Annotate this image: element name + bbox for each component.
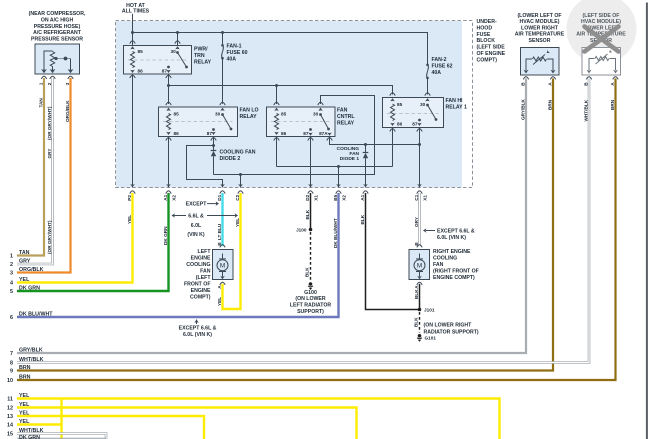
arrow into left fan B bbox=[220, 250, 225, 253]
connector below K4 pin 87 bbox=[417, 129, 422, 132]
svg-text:FUSE 60: FUSE 60 bbox=[227, 50, 248, 56]
watermark circle (deleted sensor) bbox=[567, 0, 637, 64]
arrow pin 86 K2 bbox=[166, 132, 171, 135]
svg-text:RELAY: RELAY bbox=[240, 114, 258, 120]
svg-text:40A: 40A bbox=[227, 57, 237, 63]
svg-text:GRY/BLK: GRY/BLK bbox=[19, 347, 43, 353]
svg-text:FUSE 62: FUSE 62 bbox=[432, 64, 453, 70]
connector at block border pin A1 x=168.5 bbox=[166, 184, 171, 194]
label row 13 YEL bbox=[7, 410, 30, 420]
svg-text:DK BLU/WHT: DK BLU/WHT bbox=[333, 218, 338, 248]
svg-text:87A: 87A bbox=[319, 131, 328, 136]
wire BRN sensor2 A bbox=[17, 79, 616, 381]
svg-text:87: 87 bbox=[412, 122, 418, 127]
label K4 FAN HI RELAY 1 bbox=[446, 98, 467, 111]
relay K2 internal dashed divider bbox=[163, 121, 233, 123]
node bus-30 junction bbox=[176, 31, 179, 34]
wire coil feed bus y86 bbox=[167, 84, 393, 95]
svg-text:HOOD: HOOD bbox=[477, 25, 493, 31]
wire BRN sensor1 A bbox=[17, 79, 553, 371]
label row 4 YEL bbox=[10, 277, 30, 287]
wire feed drop to FAN CNTRL 85 bbox=[276, 86, 278, 105]
wire row 16 DK GRN (clipped) bbox=[17, 437, 106, 439]
svg-text:6.0L: 6.0L bbox=[191, 223, 202, 229]
svg-text:EXCEPT 6.6L &: EXCEPT 6.6L & bbox=[437, 228, 475, 234]
svg-text:DK GRN: DK GRN bbox=[19, 435, 40, 439]
svg-text:(LEFT SIDE: (LEFT SIDE bbox=[477, 45, 506, 51]
coil of U1 bbox=[131, 52, 135, 68]
svg-text:LEFT: LEFT bbox=[198, 249, 212, 255]
coil of K2 bbox=[167, 114, 171, 130]
node bus-85 junction bbox=[131, 31, 134, 34]
svg-text:YEL: YEL bbox=[19, 277, 30, 283]
switch arm of K3 bbox=[319, 113, 330, 130]
svg-text:X1: X1 bbox=[313, 195, 318, 201]
relay K4 FAN HI RELAY 1 (box) bbox=[383, 98, 444, 128]
svg-text:13: 13 bbox=[7, 414, 13, 420]
connector below sensor1 pin B bbox=[523, 77, 528, 80]
wire BLK from D2/X1 to J100 bbox=[310, 193, 312, 230]
svg-text:RADIATOR SUPPORT): RADIATOR SUPPORT) bbox=[424, 329, 479, 335]
label row 5 DK GRN bbox=[10, 285, 40, 295]
ground G100 bbox=[309, 282, 313, 286]
connector below right fan A bbox=[417, 282, 422, 285]
wire B5 drop bbox=[338, 167, 340, 188]
pin 85 of K3 bbox=[274, 102, 279, 111]
label FAN-2 FUSE 62 40A bbox=[432, 57, 453, 76]
connector below K2 pin 87 bbox=[211, 138, 216, 141]
relay K2 FAN LO RELAY (box) bbox=[159, 107, 238, 137]
wire K3-87A run y144 bbox=[330, 137, 420, 145]
arrow pin 86 K4 bbox=[390, 123, 395, 126]
svg-text:10: 10 bbox=[7, 378, 13, 384]
svg-text:HVAC MODULE): HVAC MODULE) bbox=[520, 19, 560, 25]
arrow pin 87 K4 bbox=[417, 123, 422, 126]
label row 1 TAN bbox=[10, 250, 30, 260]
svg-text:FAN: FAN bbox=[433, 262, 444, 268]
svg-text:4: 4 bbox=[10, 281, 13, 287]
wire hot feed into block bbox=[132, 14, 134, 33]
pin 85 of K4 bbox=[390, 93, 395, 102]
label row 7 GRY/BLK bbox=[10, 347, 43, 357]
node bus-fuse1 junction bbox=[221, 31, 224, 34]
svg-text:HVAC MODULE): HVAC MODULE) bbox=[581, 19, 621, 25]
connector below K3 pin 87A bbox=[327, 138, 332, 141]
svg-text:86: 86 bbox=[174, 131, 180, 136]
wire K2-87 down to node bbox=[213, 137, 215, 146]
connector at block border pin B5 x=338.5 bbox=[336, 184, 341, 194]
svg-text:UNDER-: UNDER- bbox=[477, 19, 497, 25]
svg-text:BLK: BLK bbox=[414, 317, 419, 327]
contact dot pin 87 K2 bbox=[212, 128, 215, 131]
label row 8 WHT/BLK bbox=[10, 357, 44, 367]
coil of K4 bbox=[391, 104, 395, 121]
switch arm of U1 bbox=[176, 51, 188, 68]
arrow pin 87 U1 bbox=[166, 70, 171, 73]
wire U1-86 drop to P2 pin bbox=[132, 74, 134, 187]
connector at block border pin D1 x=222.5 bbox=[220, 184, 225, 194]
fuse FAN-2 FUSE 62 40A bbox=[426, 45, 429, 95]
label row 9 BRN bbox=[10, 365, 31, 375]
arrow pin 87A K3 bbox=[327, 132, 332, 135]
svg-text:(ON LOWER RIGHT: (ON LOWER RIGHT bbox=[424, 322, 473, 328]
svg-text:(LOWER LEFT OF: (LOWER LEFT OF bbox=[517, 13, 561, 19]
connector below sensor pin 3 bbox=[68, 76, 73, 79]
svg-text:YEL: YEL bbox=[127, 215, 132, 224]
svg-text:A1: A1 bbox=[360, 194, 365, 200]
label row 10 BRN bbox=[7, 374, 31, 384]
svg-text:(OR GRY/WHT): (OR GRY/WHT) bbox=[47, 106, 52, 140]
svg-text:OF ENGINE: OF ENGINE bbox=[477, 51, 506, 57]
svg-text:30: 30 bbox=[420, 102, 426, 107]
svg-text:YEL: YEL bbox=[235, 218, 240, 227]
svg-text:D1: D1 bbox=[217, 194, 222, 200]
svg-text:BLK: BLK bbox=[305, 209, 310, 219]
svg-text:85: 85 bbox=[281, 112, 287, 117]
coil of K3 bbox=[275, 114, 279, 130]
connector at block border pin A1 x=365.5 bbox=[363, 184, 368, 194]
svg-text:30: 30 bbox=[215, 112, 221, 117]
sensor A/C pressure (box) bbox=[35, 44, 80, 74]
label FAN-1 FUSE 60 40A bbox=[227, 44, 248, 63]
connector at block border pin D2 x=310.5 bbox=[308, 184, 313, 194]
label pin B5/X2 bbox=[333, 194, 346, 200]
svg-text:LT BLU: LT BLU bbox=[217, 223, 222, 240]
svg-text:GRY: GRY bbox=[414, 216, 419, 227]
wire YEL from C2 to left fan bbox=[223, 193, 241, 309]
svg-text:(LEFT SIDE OF: (LEFT SIDE OF bbox=[583, 13, 620, 19]
label pin D1 bbox=[217, 194, 222, 200]
wire D1 branch (left loop to LT BLU) bbox=[187, 146, 223, 188]
label LOWER LEFT AIR TEMPERATURE SENSOR bbox=[576, 13, 626, 44]
connector below K2 pin 86 bbox=[166, 138, 171, 141]
wire bus to U1 pin30 bbox=[177, 33, 179, 46]
svg-text:2: 2 bbox=[10, 262, 13, 268]
svg-text:RIGHT ENGINE: RIGHT ENGINE bbox=[433, 249, 471, 255]
svg-text:GRY: GRY bbox=[47, 148, 52, 159]
wire DK GRN from A1/X2 bbox=[17, 193, 169, 291]
svg-text:ENGINE: ENGINE bbox=[191, 288, 211, 294]
svg-text:BRN: BRN bbox=[547, 99, 552, 110]
svg-text:M: M bbox=[220, 263, 225, 270]
svg-text:EXCEPT: EXCEPT bbox=[186, 201, 208, 207]
svg-text:TAN: TAN bbox=[38, 98, 43, 108]
svg-text:COOLING FAN: COOLING FAN bbox=[220, 149, 256, 155]
svg-text:A1: A1 bbox=[163, 194, 168, 200]
connector below K3 pin 87 bbox=[308, 138, 313, 141]
sensor right air temp internals bbox=[524, 50, 556, 74]
svg-text:(VIN K): (VIN K) bbox=[187, 232, 205, 238]
svg-text:BRN: BRN bbox=[610, 99, 615, 110]
svg-text:1: 1 bbox=[10, 254, 13, 260]
svg-text:FUSE: FUSE bbox=[477, 32, 491, 38]
svg-text:87: 87 bbox=[207, 131, 213, 136]
diode D2 COOLING FAN DIODE 2 bbox=[211, 146, 217, 175]
label row 2 GRY bbox=[10, 258, 31, 268]
svg-text:ENGINE: ENGINE bbox=[191, 256, 211, 262]
svg-text:PRESSURE HOSE): PRESSURE HOSE) bbox=[34, 24, 81, 30]
connector below left fan A bbox=[220, 282, 225, 285]
wire K4-86 drop bbox=[392, 128, 394, 167]
svg-text:WHT/BLK: WHT/BLK bbox=[19, 357, 44, 363]
motor M2 symbol bbox=[414, 254, 425, 277]
svg-text:LEFT RADIATOR: LEFT RADIATOR bbox=[290, 302, 332, 308]
svg-text:FRONT OF: FRONT OF bbox=[184, 282, 211, 288]
wire top bus B+ bbox=[133, 33, 428, 46]
wire TAN sensor pin1 bbox=[17, 78, 44, 256]
label K3 FAN CNTRL RELAY bbox=[337, 108, 355, 127]
svg-text:9: 9 bbox=[10, 369, 13, 375]
arrow into right fan B bbox=[417, 250, 422, 253]
label pin C1/X1 bbox=[414, 194, 427, 200]
wire row 14 riser bbox=[60, 399, 62, 439]
svg-text:J100: J100 bbox=[296, 228, 307, 233]
svg-text:14: 14 bbox=[7, 423, 13, 429]
wire BLK right fan A to J101 bbox=[419, 284, 421, 310]
svg-text:5: 5 bbox=[10, 289, 13, 295]
connector at block border pin P2 x=132.5 bbox=[130, 184, 135, 194]
fuse FAN-1 FUSE 60 40A bbox=[221, 33, 224, 104]
label COOLING FAN DIODE 1 bbox=[337, 146, 360, 162]
svg-text:SUPPORT): SUPPORT) bbox=[297, 309, 324, 315]
arrow out left fan A bbox=[220, 276, 225, 279]
svg-text:BLK: BLK bbox=[414, 289, 419, 299]
svg-text:1: 1 bbox=[38, 82, 43, 85]
svg-text:6.0L (VIN K): 6.0L (VIN K) bbox=[183, 332, 212, 338]
svg-text:6.6L &: 6.6L & bbox=[188, 213, 204, 219]
svg-text:COMPT): COMPT) bbox=[477, 57, 498, 63]
arrow pin 87 K2 bbox=[211, 132, 216, 135]
svg-text:FAN HI: FAN HI bbox=[446, 98, 464, 104]
wire K2-86 drop to A1 pin bbox=[168, 137, 170, 188]
svg-text:BLK: BLK bbox=[360, 214, 365, 224]
label HOT AT ALL TIMES bbox=[122, 3, 150, 15]
svg-text:40A: 40A bbox=[432, 70, 442, 76]
svg-text:85: 85 bbox=[397, 102, 403, 107]
svg-text:86: 86 bbox=[138, 69, 144, 74]
label COOLING FAN DIODE 2 bbox=[220, 149, 256, 162]
svg-text:DK GRN: DK GRN bbox=[19, 285, 40, 291]
svg-text:BRN: BRN bbox=[19, 365, 31, 371]
svg-text:PWR/: PWR/ bbox=[194, 47, 208, 53]
contact dot pin 87 K3 bbox=[309, 128, 312, 131]
motor M1 symbol bbox=[217, 254, 228, 277]
svg-text:TRN: TRN bbox=[194, 53, 205, 59]
wire YEL from P2 bbox=[17, 193, 133, 283]
pin 85 of U1 (connector+arrow) bbox=[130, 41, 135, 50]
wire row 12 YEL bbox=[17, 408, 357, 439]
arrow to pin 86 U1 bbox=[130, 70, 135, 73]
ground G101 bbox=[418, 334, 422, 338]
svg-text:EXCEPT 6.6L &: EXCEPT 6.6L & bbox=[179, 325, 217, 331]
svg-text:6: 6 bbox=[10, 315, 13, 321]
wire GRY sensor pin2 bbox=[17, 78, 53, 264]
svg-text:86: 86 bbox=[397, 122, 403, 127]
label ON LOWER RIGHT RADIATOR SUPPORT bbox=[424, 322, 479, 335]
connector below sensor1 pin A bbox=[550, 77, 555, 80]
wire K4-87 drop to C1 pin bbox=[419, 128, 421, 188]
pin 30 of K3 bbox=[318, 102, 323, 111]
arrow pin 86 K3 bbox=[274, 132, 279, 135]
svg-text:FAN-1: FAN-1 bbox=[227, 44, 242, 50]
svg-text:(NEAR COMPRESSOR,: (NEAR COMPRESSOR, bbox=[29, 11, 86, 17]
label RIGHT ENGINE COOLING FAN bbox=[433, 249, 479, 281]
relay U1 internal dashed divider bbox=[128, 59, 187, 61]
pin 30 of K2 bbox=[220, 102, 225, 111]
contact dot pin 87 K4 bbox=[418, 119, 421, 122]
switch arm of K4 bbox=[426, 104, 437, 121]
wire feed drop to FAN LO 85 bbox=[168, 86, 170, 105]
wire BLK from A1 to J101 bbox=[366, 193, 420, 310]
svg-text:7: 7 bbox=[10, 351, 13, 357]
node diode2 top junction bbox=[212, 144, 215, 147]
svg-text:A/C REFRIGERANT: A/C REFRIGERANT bbox=[33, 30, 82, 36]
label K2 FAN LO RELAY bbox=[240, 108, 259, 121]
svg-text:30: 30 bbox=[170, 49, 176, 54]
svg-text:86: 86 bbox=[281, 131, 287, 136]
svg-text:DIODE 1: DIODE 1 bbox=[340, 156, 360, 162]
svg-text:DK GRN: DK GRN bbox=[163, 226, 168, 245]
wire C2 drop bbox=[240, 175, 242, 188]
relay K3 FAN CNTRL RELAY (box) bbox=[267, 107, 336, 137]
connector below sensor2 pin B bbox=[586, 77, 591, 80]
wire fan-low output run y175 bbox=[214, 96, 375, 177]
svg-text:BLOCK: BLOCK bbox=[477, 38, 496, 44]
connector below K3 pin 86 bbox=[274, 138, 279, 141]
svg-text:YEL: YEL bbox=[217, 297, 222, 306]
svg-text:3: 3 bbox=[65, 82, 70, 85]
svg-text:C2: C2 bbox=[235, 194, 240, 200]
node diode1 top junction bbox=[364, 143, 367, 146]
sensor left air temp (box) bbox=[582, 48, 621, 76]
relay U1 PWR/TRN RELAY (box) bbox=[124, 46, 192, 75]
svg-text:D2: D2 bbox=[305, 194, 310, 200]
label row 6 DK BLU/WHT bbox=[10, 311, 53, 321]
sensor A/C pressure internals bbox=[41, 51, 73, 73]
svg-text:DIODE 2: DIODE 2 bbox=[220, 156, 241, 162]
wire DK BLU/WHT from B5/X2 bbox=[17, 193, 339, 317]
underhood fuse block (fill) bbox=[116, 21, 462, 188]
wire coil ground bus y166.5 bbox=[277, 165, 393, 168]
arrow out right fan A bbox=[417, 276, 422, 279]
connector below sensor pin 1 bbox=[41, 76, 46, 79]
contact dot pin 87 U1 bbox=[167, 66, 170, 69]
svg-text:P2: P2 bbox=[127, 195, 132, 201]
svg-text:CNTRL: CNTRL bbox=[337, 114, 355, 120]
node J101 bbox=[418, 308, 422, 312]
underhood fuse block (dashed border) bbox=[116, 21, 473, 188]
label row 11 YEL bbox=[7, 393, 30, 403]
label pin C2 bbox=[235, 194, 240, 200]
svg-text:COOLING: COOLING bbox=[433, 256, 457, 262]
svg-text:PRESSURE SENSOR: PRESSURE SENSOR bbox=[31, 36, 83, 42]
X mark over deleted sensor bbox=[585, 27, 619, 52]
svg-text:TAN: TAN bbox=[19, 250, 30, 256]
wire ORG/BLK sensor pin3 bbox=[17, 78, 71, 273]
svg-text:2: 2 bbox=[47, 82, 52, 85]
connector below U1 pin 86 bbox=[130, 75, 135, 78]
svg-text:8: 8 bbox=[10, 361, 13, 367]
connector below U1 pin 87 bbox=[166, 75, 171, 78]
svg-text:RELAY 1: RELAY 1 bbox=[446, 105, 467, 111]
sensor left air temp internals bbox=[587, 49, 619, 73]
label A/C REFRIGERANT PRESSURE SENSOR bbox=[29, 11, 86, 42]
wire K3-86 drop bbox=[276, 137, 278, 167]
svg-text:X2: X2 bbox=[171, 195, 176, 201]
svg-text:X2: X2 bbox=[341, 195, 346, 201]
svg-text:DK BLU/WHT: DK BLU/WHT bbox=[19, 311, 53, 317]
relay K4 internal dashed divider bbox=[387, 113, 439, 115]
svg-text:85: 85 bbox=[174, 112, 180, 117]
annotation EXCEPT 6.6L right fan bbox=[423, 228, 475, 241]
label pin A1/X2 bbox=[163, 194, 176, 200]
svg-text:WHT/BLK: WHT/BLK bbox=[583, 99, 588, 121]
svg-text:M: M bbox=[417, 263, 422, 270]
node K4-87 junction bbox=[418, 143, 421, 146]
svg-text:B5: B5 bbox=[333, 194, 338, 200]
pin 30 of K4 bbox=[425, 93, 430, 102]
wire row 14 YEL bbox=[17, 423, 62, 425]
svg-text:BRN: BRN bbox=[19, 374, 31, 380]
pin 30 of U1 (connector+arrow) bbox=[175, 41, 180, 50]
arrow pin 87 K3 bbox=[308, 132, 313, 135]
svg-text:G101: G101 bbox=[425, 336, 437, 341]
annotation EXCEPT 6.6L row6 bbox=[179, 320, 217, 338]
svg-text:87: 87 bbox=[162, 69, 168, 74]
switch arm of K2 bbox=[221, 113, 232, 130]
label G100 ON LOWER LEFT RADIATOR SUPPORT bbox=[290, 290, 332, 315]
svg-text:J101: J101 bbox=[424, 308, 435, 313]
label UNDER-HOOD FUSE BLOCK bbox=[477, 19, 506, 63]
wire U1-87 to coil feed bus bbox=[168, 74, 170, 86]
connector below sensor pin 2 bbox=[50, 76, 55, 79]
svg-text:3: 3 bbox=[10, 271, 13, 277]
wire GRY from C1/X1 to right fan bbox=[418, 193, 421, 246]
scrollbar at right edge bbox=[646, 3, 648, 439]
svg-text:ORG/BLK: ORG/BLK bbox=[19, 267, 44, 273]
svg-text:COOLING: COOLING bbox=[186, 262, 210, 268]
svg-text:FAN: FAN bbox=[337, 108, 348, 114]
pin 85 of K2 bbox=[166, 102, 171, 111]
svg-text:ON A/C HIGH: ON A/C HIGH bbox=[41, 18, 74, 24]
svg-text:FAN-2: FAN-2 bbox=[432, 57, 447, 63]
svg-text:BLK: BLK bbox=[305, 267, 310, 277]
svg-text:ORG/BLK: ORG/BLK bbox=[65, 100, 70, 122]
wire K3-87 drop to D2 pin bbox=[310, 137, 312, 188]
wire row 15 WHT/BLK bbox=[17, 434, 106, 439]
svg-text:YEL: YEL bbox=[19, 393, 30, 399]
svg-text:(OR GRY/WHT): (OR GRY/WHT) bbox=[47, 220, 52, 254]
wire bus to U1 pin85 bbox=[132, 33, 134, 46]
wire row 11 YEL bbox=[17, 399, 500, 439]
svg-text:ALL TIMES: ALL TIMES bbox=[122, 8, 150, 14]
svg-text:(ON LOWER: (ON LOWER bbox=[295, 296, 326, 302]
svg-text:YEL: YEL bbox=[19, 402, 30, 408]
label pin D2/X1 bbox=[305, 194, 318, 200]
svg-text:85: 85 bbox=[138, 49, 144, 54]
svg-text:30: 30 bbox=[313, 112, 319, 117]
connector below K4 pin 86 bbox=[390, 129, 395, 132]
node J100 bbox=[309, 228, 313, 232]
svg-text:12: 12 bbox=[7, 406, 13, 412]
svg-text:WHT/BLK: WHT/BLK bbox=[19, 428, 44, 434]
svg-text:(RIGHT FRONT OF: (RIGHT FRONT OF bbox=[433, 269, 479, 275]
connector at block border pin C2 x=240.5 bbox=[238, 184, 243, 194]
svg-text:C1: C1 bbox=[414, 194, 419, 200]
label pin P2 bbox=[127, 195, 132, 201]
wire WHT/BLK sensor2 B bbox=[17, 79, 589, 363]
wire row 13 YEL bbox=[17, 416, 204, 439]
